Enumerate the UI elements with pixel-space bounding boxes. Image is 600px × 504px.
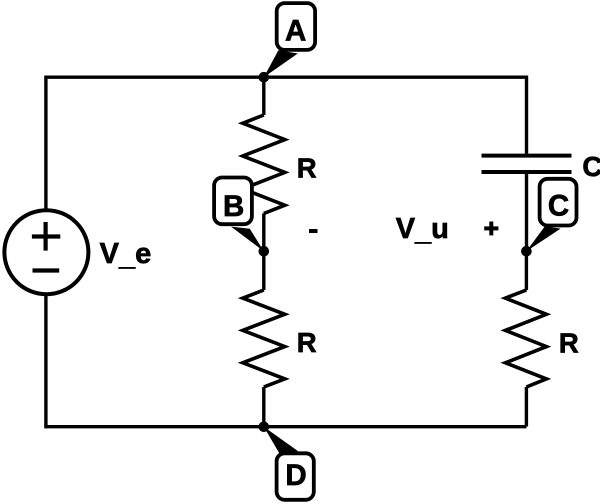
svg-text:D: D — [285, 459, 306, 492]
svg-text:V_e: V_e — [100, 238, 152, 272]
svg-text:R: R — [297, 152, 317, 183]
svg-text:V_u: V_u — [396, 213, 449, 247]
svg-text:C: C — [582, 151, 600, 182]
svg-text:A: A — [285, 15, 306, 48]
svg-text:R: R — [559, 328, 579, 359]
svg-text:B: B — [223, 190, 244, 223]
svg-text:R: R — [297, 327, 317, 358]
svg-text:C: C — [548, 189, 569, 222]
